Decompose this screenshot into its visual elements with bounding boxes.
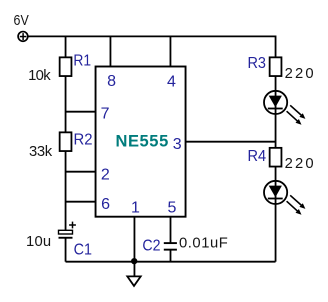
- svg-text:220: 220: [285, 156, 314, 172]
- svg-text:3: 3: [173, 136, 182, 153]
- svg-text:4: 4: [167, 73, 176, 90]
- svg-text:2: 2: [101, 166, 110, 183]
- svg-text:0.01uF: 0.01uF: [179, 236, 228, 252]
- svg-text:10k: 10k: [28, 68, 51, 84]
- svg-text:33k: 33k: [29, 144, 53, 160]
- svg-text:C2: C2: [142, 238, 160, 255]
- svg-text:R4: R4: [247, 148, 266, 165]
- svg-text:R1: R1: [73, 53, 91, 70]
- svg-text:R2: R2: [74, 132, 93, 149]
- svg-text:10u: 10u: [26, 234, 51, 250]
- svg-text:R3: R3: [247, 55, 266, 72]
- svg-text:6: 6: [101, 196, 110, 213]
- svg-text:C1: C1: [74, 242, 92, 259]
- svg-text:5: 5: [168, 199, 177, 216]
- svg-text:7: 7: [101, 105, 110, 122]
- svg-text:6V: 6V: [14, 13, 29, 29]
- svg-text:220: 220: [285, 66, 314, 82]
- svg-text:8: 8: [107, 73, 116, 90]
- svg-text:NE555: NE555: [115, 133, 168, 151]
- svg-text:1: 1: [131, 199, 140, 216]
